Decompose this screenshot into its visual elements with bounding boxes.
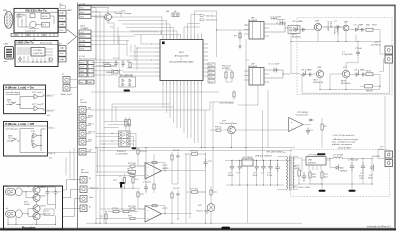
svg-text:U?? 78L05: U?? 78L05 bbox=[243, 157, 254, 159]
Mode_Lock=On option box bbox=[4, 85, 46, 114]
inductor L psu bbox=[330, 155, 348, 159]
svg-text:(recommended): (recommended) bbox=[6, 93, 21, 96]
current limit resistor R30 bbox=[321, 118, 328, 136]
svg-text:LED_L: LED_L bbox=[47, 95, 54, 97]
chevron selector bbox=[66, 9, 77, 59]
USB connector J3 bbox=[4, 44, 14, 64]
svg-text:or: or bbox=[181, 58, 183, 61]
svg-text:Power: Power bbox=[378, 148, 384, 151]
psu ground bar 1 bbox=[319, 184, 326, 192]
ground rail psu left bbox=[226, 160, 284, 223]
svg-text:4.7uF: 4.7uF bbox=[267, 175, 273, 177]
svg-text:470uF: 470uF bbox=[228, 175, 235, 177]
svg-text:LED_R: LED_R bbox=[88, 132, 95, 134]
battery vertical label bbox=[333, 26, 339, 35]
+5V label bbox=[92, 188, 96, 190]
psu wires bbox=[290, 96, 385, 185]
bus drop wires to encoder bbox=[66, 148, 74, 181]
page border bottom bbox=[0, 227, 396, 230]
svg-text:USB (DC 5V/BC)?: USB (DC 5V/BC)? bbox=[255, 156, 273, 158]
svg-text:MCU: MCU bbox=[179, 52, 184, 54]
svg-text:HW 3R: HW 3R bbox=[366, 91, 373, 93]
svg-text:Encoder: Encoder bbox=[22, 226, 36, 230]
inductor L20 toroid label bbox=[322, 21, 334, 32]
svg-text:5R1#: 5R1# bbox=[372, 25, 378, 27]
svg-text:D1? "Led_L": D1? "Led_L" bbox=[32, 92, 44, 94]
svg-text:2x10k: 2x10k bbox=[24, 204, 31, 206]
DC-DC chip U9 MC34063 bottom bbox=[244, 64, 269, 86]
page border top bbox=[78, 5, 396, 6]
svg-text:LNK: LNK bbox=[308, 160, 313, 162]
svg-text:RST: RST bbox=[80, 71, 85, 73]
svg-text:normally open: normally open bbox=[6, 127, 20, 130]
svg-text:47uF: 47uF bbox=[253, 175, 258, 177]
transistor Q20 top-left bbox=[308, 19, 322, 34]
encoder resistors text bbox=[24, 202, 31, 207]
svg-text:U?R-U5R 5V4B2T: U?R-U5R 5V4B2T bbox=[266, 152, 284, 154]
svg-text:L?? 470uH: L?? 470uH bbox=[327, 21, 329, 32]
current limit diode bbox=[303, 119, 314, 125]
connector column: top group J6 bbox=[79, 4, 91, 19]
opto input wires bbox=[96, 121, 136, 148]
feedback opamp U12 bbox=[289, 112, 309, 132]
diode cap pair D21 bbox=[349, 25, 365, 32]
opamp A1 bbox=[145, 163, 169, 180]
encoder transistor Q b bbox=[33, 194, 47, 201]
encoder cap C b bbox=[54, 189, 62, 196]
U8 inductor/diode parts bbox=[269, 17, 286, 33]
opamp A1 input resistors bbox=[126, 148, 148, 177]
svg-text:Encoder: Encoder bbox=[81, 171, 89, 174]
svg-text:or 2xTLP620: or 2xTLP620 bbox=[116, 153, 129, 156]
caps row under rail c3 bbox=[253, 160, 259, 185]
LED_L / LED_R labels box2 bbox=[49, 128, 56, 160]
connector column: IC-03 group bbox=[79, 56, 97, 77]
svg-text:LM358: LM358 bbox=[162, 168, 169, 170]
RS-232 option box bbox=[14, 8, 58, 33]
opto coupler U11 bbox=[116, 139, 131, 156]
button jack 3 bbox=[79, 123, 95, 130]
USB right connector stack J5 bbox=[59, 44, 67, 62]
MCU pins left bbox=[151, 44, 160, 76]
cap C30 bbox=[306, 128, 314, 135]
encoder to jack wires bbox=[63, 180, 81, 217]
svg-text:C?? 100uF: C?? 100uF bbox=[348, 160, 359, 162]
MCU right pin net boxes bbox=[208, 63, 215, 83]
resistor box 5R1 bbox=[366, 25, 380, 32]
encoder transistor Q d bbox=[33, 213, 47, 220]
bottom mid wires bbox=[88, 148, 238, 224]
svg-text:+25V: +25V bbox=[359, 178, 365, 180]
svg-text:ATmega8-16AI: ATmega8-16AI bbox=[175, 55, 189, 58]
svg-text:(0) 180V: (0) 180V bbox=[372, 156, 381, 158]
svg-text:R?? 10k: R?? 10k bbox=[128, 163, 137, 165]
svg-text:If (Mode_Lock) = Off: If (Mode_Lock) = Off bbox=[5, 122, 34, 126]
Mode_Lock=Off option box bbox=[4, 122, 48, 157]
pololu module resistors bbox=[222, 66, 233, 83]
svg-text:C?L L-SMF: C?L L-SMF bbox=[301, 70, 312, 72]
horizontal resistor R750 b bbox=[186, 189, 206, 194]
charger row2 diode pair right bbox=[350, 70, 365, 77]
psu ground bar 2 bbox=[349, 184, 356, 192]
bottom junction dots bbox=[105, 147, 211, 224]
svg-text:16MHz: 16MHz bbox=[106, 72, 113, 74]
svg-text:C? L-SMF: C? L-SMF bbox=[354, 25, 364, 27]
DB9 connector J1 bbox=[3, 10, 14, 28]
opamp A2 bbox=[145, 206, 168, 223]
Encoder box bbox=[4, 186, 63, 230]
encoder cap label box bbox=[44, 209, 54, 216]
78L05 regulator U13 bbox=[236, 157, 258, 170]
top wire nest bbox=[91, 8, 249, 78]
diode resistor pair col2 bbox=[171, 188, 180, 204]
svg-text:"Low Current" Mod: "Low Current" Mod bbox=[219, 122, 237, 125]
svg-text:MISO: MISO bbox=[80, 62, 86, 64]
vertical resistor R6 bbox=[100, 211, 107, 223]
DC input connector J15 bbox=[371, 42, 393, 63]
encoder transistor Q a bbox=[33, 186, 47, 193]
svg-text:Rst: Rst bbox=[88, 107, 92, 110]
connector column: CN-4 L-UART group bbox=[79, 26, 91, 51]
svg-text:100-230 VAC?: 100-230 VAC? bbox=[338, 147, 352, 150]
svg-text:C?? R??: C?? R?? bbox=[143, 182, 152, 184]
connector column: Vss pair bbox=[79, 80, 94, 84]
C 1uF mid charger bbox=[355, 48, 363, 56]
svg-text:schematic by Wlson K.I.: schematic by Wlson K.I. bbox=[367, 226, 392, 229]
svg-text:C? C?: C? C? bbox=[113, 58, 120, 60]
ground blob bottom mid bbox=[222, 227, 231, 229]
cap pair C20 bbox=[334, 21, 342, 35]
crystal X1 bbox=[106, 69, 120, 75]
USB option box bbox=[15, 41, 58, 67]
C 4.7uF label mid charger bbox=[342, 52, 353, 57]
svg-text:PC0: PC0 bbox=[209, 65, 213, 67]
button jack 4 bbox=[79, 131, 95, 138]
caps row under rail c4 bbox=[261, 160, 266, 185]
svg-text:U?? LM358: U?? LM358 bbox=[297, 112, 309, 114]
svg-text:PC2: PC2 bbox=[209, 73, 213, 75]
svg-text:L?? 470uH: L?? 470uH bbox=[333, 155, 344, 157]
R low current bbox=[210, 127, 222, 132]
Two-Drv charger transistor Q10 bbox=[96, 11, 132, 24]
psu cap 47uF 25V bbox=[359, 159, 365, 185]
encoder cap C a bbox=[46, 189, 55, 196]
svg-text:SCK: SCK bbox=[80, 67, 85, 69]
svg-text:mini: mini bbox=[4, 61, 8, 63]
encoder jack B bbox=[80, 205, 91, 212]
svg-text:"R_Stop": "R_Stop" bbox=[7, 101, 16, 104]
button jack 2 bbox=[79, 115, 94, 122]
svg-text:Rx/Tx: Rx/Tx bbox=[80, 36, 86, 38]
charger row2 transistor Q22 bbox=[313, 66, 324, 84]
svg-text:C?L L-SMF: C?L L-SMF bbox=[292, 21, 303, 23]
tantalum blob bottom left bbox=[120, 184, 122, 188]
main board left rail bbox=[77, 3, 79, 229]
fusible R bbox=[309, 170, 317, 184]
cap C1 400V bbox=[293, 172, 311, 189]
svg-text:"Two-Drv" Charger: "Two-Drv" Charger bbox=[114, 12, 132, 15]
encoder jack +5V bbox=[80, 186, 93, 193]
svg-text:GND: GND bbox=[80, 75, 85, 77]
DC-DC chip U8 MC34063 top bbox=[244, 18, 269, 40]
RS-232 right connector stack J4 bbox=[59, 4, 67, 32]
caps row under rail c5 bbox=[267, 160, 273, 185]
svg-text:PC4: PC4 bbox=[209, 81, 213, 83]
svg-text:LED_R: LED_R bbox=[49, 153, 56, 155]
svg-text:"L-UART": "L-UART" bbox=[80, 27, 89, 30]
tantalum blob bbox=[124, 90, 131, 92]
transistor Q21 mid bbox=[343, 21, 349, 35]
voltage select label bbox=[219, 90, 235, 105]
svg-text:D? 4x1N4148: D? 4x1N4148 bbox=[120, 75, 134, 77]
button jack 1 bbox=[79, 107, 92, 114]
J encoder header text bbox=[81, 170, 89, 175]
svg-text:R?? 750: R?? 750 bbox=[190, 189, 199, 191]
svg-text:304/306: 304/306 bbox=[308, 163, 316, 165]
mains connector J16 bbox=[372, 147, 393, 167]
svg-text:18V?: 18V? bbox=[368, 178, 374, 180]
R 1k bottom left bbox=[128, 168, 136, 173]
svg-text:C1? 4.7uF + 400V: C1? 4.7uF + 400V bbox=[293, 187, 311, 189]
svg-text:R?? 750: R?? 750 bbox=[190, 151, 199, 153]
svg-text:FT232RL: FT232RL bbox=[34, 50, 44, 52]
psu cap 100uF bbox=[348, 159, 359, 185]
low current transistor Q30 bbox=[219, 121, 237, 137]
encoder jack Gnd bbox=[80, 196, 94, 203]
svg-text:R?? 10k: R?? 10k bbox=[128, 206, 137, 208]
svg-text:PC3: PC3 bbox=[209, 77, 213, 79]
junction dots rails bbox=[95, 147, 246, 224]
svg-text:+5V: +5V bbox=[88, 150, 92, 152]
power resistor box HW3R bbox=[360, 85, 380, 93]
LED_L / LED_R labels box1 bbox=[46, 95, 56, 117]
svg-text:LED_L: LED_L bbox=[88, 124, 95, 126]
+5V dig net box bbox=[285, 26, 300, 34]
caps row under rail c1 bbox=[228, 160, 235, 185]
transformer T1 bbox=[278, 153, 299, 191]
svg-text:"Power" LED: "Power" LED bbox=[196, 210, 208, 213]
resistor box NiCd bbox=[366, 71, 380, 76]
PSU dashed box bbox=[291, 147, 390, 197]
svg-text:1: 1 bbox=[151, 44, 152, 46]
svg-text:C?L L-SMF: C?L L-SMF bbox=[354, 70, 365, 72]
small parts row y186 bbox=[143, 182, 155, 193]
svg-text:Mode: Mode bbox=[88, 116, 94, 118]
svg-text:USB | Re-Tx: USB | Re-Tx bbox=[17, 41, 35, 45]
svg-text:D2? "Led_R": D2? "Led_R" bbox=[32, 104, 44, 106]
svg-text:C? 1uF: C? 1uF bbox=[355, 48, 363, 50]
svg-text:BC5?: BC5? bbox=[41, 206, 47, 208]
charger row2 diode pair left bbox=[300, 70, 313, 77]
crystal caps C10 C11 bbox=[113, 58, 131, 68]
svg-text:LED_R: LED_R bbox=[47, 110, 54, 112]
svg-text:Direction_L: Direction_L bbox=[206, 14, 217, 17]
svg-text:Mode: Mode bbox=[80, 45, 86, 47]
svg-text:BD140-16: BD140-16 bbox=[314, 82, 324, 84]
svg-text:ATmega48/88/168(-20AU): ATmega48/88/168(-20AU) bbox=[169, 61, 194, 64]
cap column mid bbox=[204, 158, 213, 167]
cap blob bottom left bbox=[113, 178, 125, 188]
svg-text:S7V8F3: S7V8F3 bbox=[222, 68, 230, 70]
svg-text:If (Mode_Lock) = On: If (Mode_Lock) = On bbox=[5, 85, 34, 89]
svg-text:C? +C 10uF: C? +C 10uF bbox=[268, 64, 280, 66]
opto coupler U10 bbox=[119, 131, 131, 139]
svg-text:UF4007: UF4007 bbox=[340, 171, 348, 173]
R divider under U8 bbox=[234, 30, 242, 48]
svg-text:0.1uF: 0.1uF bbox=[45, 214, 51, 216]
MCU pins bottom bbox=[163, 81, 202, 86]
svg-text:10R: 10R bbox=[312, 177, 316, 179]
left bottom resistors R5 bbox=[108, 208, 138, 213]
svg-text:USB: USB bbox=[4, 44, 9, 46]
svg-text:Control: Control bbox=[80, 101, 87, 104]
GB JP jumper box bbox=[166, 11, 179, 17]
mode lock jack circles bbox=[60, 74, 78, 96]
opamp A1 feedback bbox=[145, 162, 170, 172]
svg-text:(back wiring): (back wiring) bbox=[40, 41, 52, 44]
MCU pins top bbox=[161, 31, 202, 40]
svg-text:BD140(?): BD140(?) bbox=[292, 37, 301, 39]
psu zener bbox=[368, 162, 374, 184]
svg-text:Vss: Vss bbox=[80, 82, 83, 84]
svg-text:+5V: +5V bbox=[80, 32, 84, 34]
bridge rectifier BR1 bbox=[294, 164, 301, 184]
svg-text:(SMD): (SMD) bbox=[17, 17, 23, 19]
svg-text:RS_E: RS_E bbox=[289, 30, 295, 32]
caps row under rail c2 bbox=[237, 160, 243, 185]
encoder sensor SW B bbox=[6, 208, 23, 218]
svg-text:UART: UART bbox=[67, 9, 73, 12]
svg-text:D?+R?: D?+R? bbox=[173, 150, 180, 152]
credit text bbox=[367, 226, 392, 229]
svg-text:Tx/Rx: Tx/Rx bbox=[80, 40, 86, 42]
encoder jack A bbox=[80, 177, 91, 184]
charger wires bbox=[291, 27, 390, 93]
notes bullets bbox=[332, 134, 359, 146]
junction dots top nest bbox=[95, 16, 217, 48]
resistor R osc bbox=[96, 62, 116, 66]
svg-text:R? 10k: R? 10k bbox=[103, 62, 111, 64]
svg-text:BC5?: BC5? bbox=[41, 196, 47, 198]
svg-text:12V LiPo: 12V LiPo bbox=[333, 26, 335, 35]
opamp A2 feedback bbox=[145, 205, 170, 215]
svg-text:U?? LNK304GN: U?? LNK304GN bbox=[308, 155, 324, 157]
caps row under rail c6 bbox=[275, 160, 279, 185]
svg-text:C1-C4: 1uF: C1-C4: 1uF bbox=[25, 31, 36, 33]
button jack 5 bbox=[79, 139, 93, 146]
svg-text:RS-232 | Re-Tx: RS-232 | Re-Tx bbox=[25, 8, 46, 12]
J2 pin strip under RS-232 bbox=[11, 33, 58, 40]
R feedback psu bbox=[321, 170, 329, 184]
horizontal resistor R750 bbox=[186, 151, 206, 156]
svg-text:"Mode_Lock": "Mode_Lock" bbox=[60, 94, 72, 96]
svg-text:9: 9 bbox=[151, 60, 152, 62]
junction dots bl bbox=[97, 171, 134, 188]
opamp A2 input resistors bbox=[122, 190, 145, 220]
J7 control header text bbox=[80, 100, 87, 105]
svg-text:R? 1k: R? 1k bbox=[128, 168, 134, 170]
MCU U1 ATmega8 bbox=[160, 40, 203, 81]
psu diode UF4007 bbox=[330, 164, 348, 172]
svg-text:R?? 1k: R?? 1k bbox=[140, 151, 148, 153]
svg-text:(LQFP 32): (LQFP 32) bbox=[33, 53, 43, 55]
vertical cap pair bottom left bbox=[119, 173, 139, 188]
svg-text:+ PLE: 1/2 (do Vout+18): + PLE: 1/2 (do Vout+18) bbox=[332, 134, 355, 137]
LNK304 U14 bbox=[302, 155, 330, 171]
diode D20 pair top-left bbox=[291, 21, 308, 39]
svg-text:Direction_R: Direction_R bbox=[206, 19, 217, 22]
encoder wires bbox=[7, 186, 56, 225]
svg-text:Not permanent link: Not permanent link bbox=[79, 58, 97, 61]
opto pullup resistor pair bbox=[125, 117, 131, 131]
U9 diode cap parts bbox=[268, 64, 290, 79]
power LED Q40 bbox=[196, 186, 218, 223]
MCU pins right bbox=[203, 44, 208, 76]
encoder transistor Q c bbox=[33, 205, 47, 212]
svg-text:BC5?: BC5? bbox=[41, 187, 47, 189]
charger section dashed box bbox=[297, 18, 392, 95]
USB DC5V text bbox=[255, 152, 284, 158]
page border right bbox=[394, 5, 396, 231]
svg-text:400V: 400V bbox=[294, 168, 299, 170]
diode bridge block D10-13 bbox=[119, 75, 136, 87]
svg-text:mA-limit - acceptance: mA-limit - acceptance bbox=[332, 143, 353, 146]
encoder sensor SW A bbox=[6, 186, 23, 196]
svg-text:LED_L: LED_L bbox=[49, 128, 56, 130]
charger junction dots bbox=[290, 41, 380, 90]
svg-text:4.7uF+LM?: 4.7uF+LM? bbox=[342, 54, 353, 56]
psu junction dots bbox=[298, 158, 372, 185]
opto tantalum blob bbox=[132, 147, 137, 149]
smd blob bbox=[317, 153, 326, 155]
mid horizontal rails bbox=[46, 8, 322, 224]
diode resistor pair col1 bbox=[171, 150, 180, 165]
direction net labels bbox=[200, 14, 217, 21]
svg-text:D?+R?: D?+R? bbox=[173, 188, 180, 190]
button jack 6 bbox=[79, 149, 92, 156]
svg-text:PC1: PC1 bbox=[209, 69, 213, 71]
charger row2 transistor Q23 bbox=[338, 66, 351, 85]
svg-text:R?L 1k: R?L 1k bbox=[215, 127, 222, 129]
